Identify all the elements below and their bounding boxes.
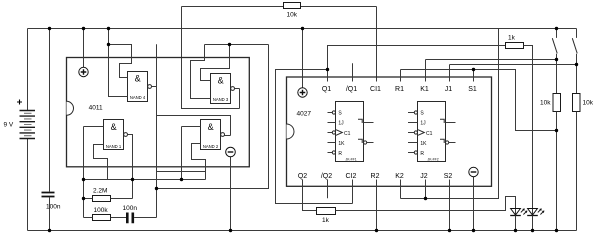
wire 2.2M left lead bbox=[84, 198, 93, 200]
pin stub S1 bbox=[473, 70, 475, 82]
node Q1 dot bbox=[326, 68, 329, 71]
wire left pin channel bbox=[83, 127, 85, 218]
FF1 pin labels bbox=[338, 111, 356, 162]
switch S1 blade bbox=[552, 38, 557, 53]
wire RC timing node bbox=[84, 179, 206, 181]
wire S2 to ground bbox=[449, 180, 451, 231]
IC 4011 package box bbox=[67, 58, 250, 167]
svg-text:100k: 100k bbox=[94, 207, 109, 214]
resistor 10k top bbox=[284, 3, 301, 9]
wire 2.2M right lead bbox=[111, 198, 133, 200]
IC 4027 notch bbox=[287, 124, 295, 139]
svg-text:4011: 4011 bbox=[89, 104, 103, 111]
svg-text:JK-FF1: JK-FF1 bbox=[346, 157, 357, 161]
wire NAND4 input 1 jog bbox=[109, 45, 132, 78]
wire 100k left lead bbox=[84, 217, 93, 219]
wire LED D1 cathode lead bbox=[515, 216, 517, 231]
NAND 4 output bubble bbox=[148, 85, 152, 89]
pin stub CI2 bbox=[352, 180, 354, 204]
wire K2 J2 to VDD bbox=[401, 29, 499, 199]
wire top oscillator feedback left bbox=[182, 6, 284, 8]
NAND 1 gate box bbox=[104, 120, 124, 150]
power pin minus 4027 lead bbox=[473, 177, 475, 231]
svg-text:JK-FF2: JK-FF2 bbox=[428, 157, 439, 161]
LED D1 arrows bbox=[521, 209, 527, 215]
svg-text:10k: 10k bbox=[583, 100, 594, 107]
FF1 postponed output marks bbox=[358, 119, 362, 143]
power pin plus 4027 symbol bbox=[298, 88, 307, 97]
node NAND3 input dot bbox=[228, 43, 231, 46]
svg-text:Q2: Q2 bbox=[298, 173, 307, 180]
node RC wire dots bbox=[82, 178, 85, 181]
resistor 2.2M bbox=[93, 196, 111, 202]
wire NAND3 input 2 loop bbox=[191, 45, 211, 99]
svg-text:J1: J1 bbox=[445, 86, 453, 93]
wire 10k-right top lead bbox=[576, 65, 578, 94]
gate ampersand labels bbox=[111, 73, 224, 132]
NAND 3 gate box bbox=[211, 74, 231, 104]
wire R1 S1 to 10k-left bottom bbox=[401, 70, 557, 131]
FF2 clock chevron bbox=[418, 130, 424, 136]
svg-text:/Q2: /Q2 bbox=[321, 173, 332, 180]
pin stub /Q1 bbox=[352, 63, 354, 81]
FF1 input bubbles bbox=[332, 111, 335, 154]
svg-text:C1: C1 bbox=[426, 131, 433, 137]
svg-text:1J: 1J bbox=[420, 121, 426, 127]
capacitor C1 100n bottom lead bbox=[49, 198, 51, 231]
battery BT1 9V long plates bbox=[20, 111, 36, 139]
svg-text:NAND 3: NAND 3 bbox=[213, 97, 229, 102]
wire NAND2 output bus bbox=[157, 116, 231, 136]
wire NAND2 input 2 loop bbox=[192, 144, 206, 180]
wire Q1 to CI2 link bbox=[276, 70, 353, 204]
wire 10k-left top lead bbox=[556, 60, 558, 94]
wire NAND3 tied inputs top bbox=[205, 44, 269, 46]
wire K1 to switch 1 bbox=[426, 60, 557, 82]
wire LED D2 cathode lead bbox=[532, 216, 534, 231]
svg-text:&: & bbox=[218, 75, 224, 85]
NAND 3 output bubble bbox=[231, 87, 235, 91]
IC 4027 package box bbox=[287, 77, 492, 186]
svg-text:1J: 1J bbox=[338, 121, 344, 127]
svg-text:R2: R2 bbox=[371, 173, 380, 180]
svg-text:K1: K1 bbox=[420, 86, 429, 93]
wire NAND4 output bbox=[152, 86, 157, 88]
battery plus sign bbox=[17, 100, 22, 105]
svg-text:1k: 1k bbox=[322, 217, 330, 224]
wire NAND1 input 1 bbox=[84, 126, 104, 128]
flip-flop FF2 box bbox=[418, 102, 446, 162]
switch S2 top contact bbox=[576, 29, 578, 38]
wire NAND2 input 1 bbox=[182, 126, 201, 128]
svg-text:NAND 4: NAND 4 bbox=[130, 95, 146, 100]
svg-text:J2: J2 bbox=[420, 173, 428, 180]
wire ground rail bbox=[28, 230, 577, 232]
svg-text:100n: 100n bbox=[123, 205, 138, 212]
wire battery positive lead bbox=[27, 29, 29, 111]
node switch2 dot bbox=[575, 63, 578, 66]
wire NAND4 input from VDD pin bbox=[109, 29, 128, 97]
wire 10k-right bottom to ground bbox=[576, 112, 578, 231]
wire NAND3 input 1 loop bbox=[201, 45, 230, 81]
svg-text:9 V: 9 V bbox=[4, 122, 14, 129]
svg-text:R1: R1 bbox=[395, 86, 404, 93]
FF2 Q output stub bbox=[446, 122, 456, 124]
switch S2 blade bbox=[572, 38, 577, 53]
svg-text:CI2: CI2 bbox=[346, 173, 357, 180]
ground rail dots bbox=[48, 229, 51, 232]
node 2.2M left lead dot bbox=[82, 197, 85, 200]
power pin minus 4011 symbol bbox=[226, 147, 236, 157]
wire node C link to NAND2 channel bbox=[157, 171, 206, 173]
node 10k-left bottom dot bbox=[555, 129, 558, 132]
wire top oscillator feedback right bbox=[301, 6, 377, 8]
svg-text:K2: K2 bbox=[395, 173, 404, 180]
node J2 dot bbox=[424, 197, 427, 200]
svg-text:S1: S1 bbox=[468, 86, 477, 93]
4027 pin labels bottom bbox=[298, 173, 453, 180]
wire NAND2 input 1 riser bbox=[181, 127, 183, 180]
wire 10k-left bottom to ground bbox=[556, 112, 558, 231]
power pin plus 4011 symbol bbox=[79, 67, 88, 76]
wire NAND3 output stub bbox=[235, 88, 240, 90]
LED D1 triangle bbox=[511, 209, 521, 216]
wire node C to NAND3 input riser bbox=[157, 45, 269, 189]
wire 1k to LED2 anode bbox=[524, 46, 533, 216]
wire Q1 pin to 1k bbox=[328, 46, 506, 82]
power pin plus 4011 lead bbox=[83, 29, 85, 68]
power pin minus 4011 lead bbox=[230, 157, 232, 231]
FF1 clock chevron bbox=[336, 130, 342, 136]
switch S1 top contact bbox=[556, 29, 558, 38]
LED D1 cathode bar bbox=[510, 215, 521, 217]
LED D2 arrows bbox=[538, 209, 544, 215]
resistor 1k top right bbox=[506, 43, 524, 49]
resistor 10k left bbox=[553, 94, 561, 112]
wire drop to NAND3 output rail bbox=[182, 7, 240, 109]
svg-text:2.2M: 2.2M bbox=[93, 188, 107, 195]
4027 pin labels top bbox=[322, 86, 477, 93]
node switch1 dot bbox=[555, 58, 558, 61]
FF2 pin labels bbox=[420, 111, 438, 162]
wire Q2 to 1k bottom bbox=[303, 180, 317, 211]
wire R2 to ground bbox=[376, 180, 378, 231]
gate name labels bbox=[106, 95, 229, 149]
FF2 input stubs bbox=[408, 113, 418, 153]
battery BT1 short plates bbox=[24, 113, 32, 135]
power pin minus 4027 symbol bbox=[469, 167, 478, 176]
node NAND4 loop dot bbox=[107, 43, 110, 46]
LED D2 cathode bar bbox=[527, 215, 538, 217]
wire VDD rail bbox=[28, 28, 577, 30]
wire battery negative lead bbox=[27, 139, 29, 231]
capacitor C1 100n top lead bbox=[49, 29, 51, 192]
wire NAND1 output channel bbox=[128, 135, 133, 199]
svg-text:100n: 100n bbox=[46, 204, 61, 211]
wire J1 to switch 2 bbox=[450, 65, 577, 82]
switch S2 bottom contact bbox=[576, 54, 578, 65]
svg-text:/Q1: /Q1 bbox=[346, 86, 357, 93]
capacitor C2 100n plates bbox=[127, 213, 133, 224]
wire NAND1 input 2 loop bbox=[94, 145, 108, 180]
svg-text:&: & bbox=[111, 122, 117, 132]
FF1 Q output stub bbox=[364, 122, 374, 124]
wire node C vertical channel bbox=[156, 44, 158, 217]
wire 100k right lead bbox=[111, 217, 127, 219]
svg-text:R: R bbox=[338, 151, 342, 157]
wire C2 right lead bbox=[134, 217, 156, 219]
FF1 input stubs bbox=[328, 113, 336, 153]
svg-text:S2: S2 bbox=[444, 173, 453, 180]
NAND 1 output bubble bbox=[124, 133, 128, 137]
svg-text:&: & bbox=[135, 73, 141, 83]
NAND 4 gate box bbox=[128, 72, 148, 102]
svg-text:1K: 1K bbox=[338, 141, 345, 147]
svg-text:R: R bbox=[420, 151, 424, 157]
pin stub J2 bbox=[425, 180, 427, 199]
wire NAND2 output stub bbox=[224, 135, 230, 137]
resistor 100k bbox=[93, 215, 111, 221]
NAND 2 output bubble bbox=[221, 133, 225, 137]
svg-text:&: & bbox=[208, 122, 214, 132]
capacitor C1 100n plates bbox=[42, 193, 55, 197]
wire CI1 clock line bbox=[376, 7, 378, 82]
FF2 postponed output marks bbox=[440, 119, 444, 143]
resistor 1k bottom bbox=[317, 208, 336, 215]
FF2 /Q output bubble and stub bbox=[446, 141, 449, 144]
svg-text:Q1: Q1 bbox=[322, 86, 331, 93]
svg-text:C1: C1 bbox=[344, 131, 351, 137]
svg-text:10k: 10k bbox=[287, 12, 298, 19]
node C dot bbox=[155, 187, 158, 190]
resistor 10k right bbox=[573, 94, 581, 112]
svg-text:CI1: CI1 bbox=[370, 86, 381, 93]
svg-text:1K: 1K bbox=[420, 141, 427, 147]
svg-text:4027: 4027 bbox=[297, 110, 312, 117]
svg-text:NAND 1: NAND 1 bbox=[106, 144, 122, 149]
node S1 dot bbox=[472, 68, 475, 71]
NAND 2 gate box bbox=[201, 120, 221, 150]
wire 1k bottom to LED1 anode bbox=[336, 197, 516, 216]
FF1 /Q output bubble and stub bbox=[364, 141, 367, 144]
svg-text:NAND 2: NAND 2 bbox=[203, 144, 219, 149]
LED D2 triangle bbox=[528, 209, 538, 216]
power pin plus 4027 lead bbox=[302, 29, 304, 88]
IC 4011 notch bbox=[67, 101, 74, 115]
svg-text:1k: 1k bbox=[508, 35, 516, 42]
svg-text:10k: 10k bbox=[540, 100, 551, 107]
FF2 input bubbles bbox=[414, 111, 417, 154]
switch S1 bottom contact bbox=[556, 54, 558, 60]
wire NAND3 output riser bbox=[239, 89, 241, 109]
pin stub /Q2 bbox=[327, 180, 329, 199]
flip-flop FF1 box bbox=[336, 102, 364, 162]
